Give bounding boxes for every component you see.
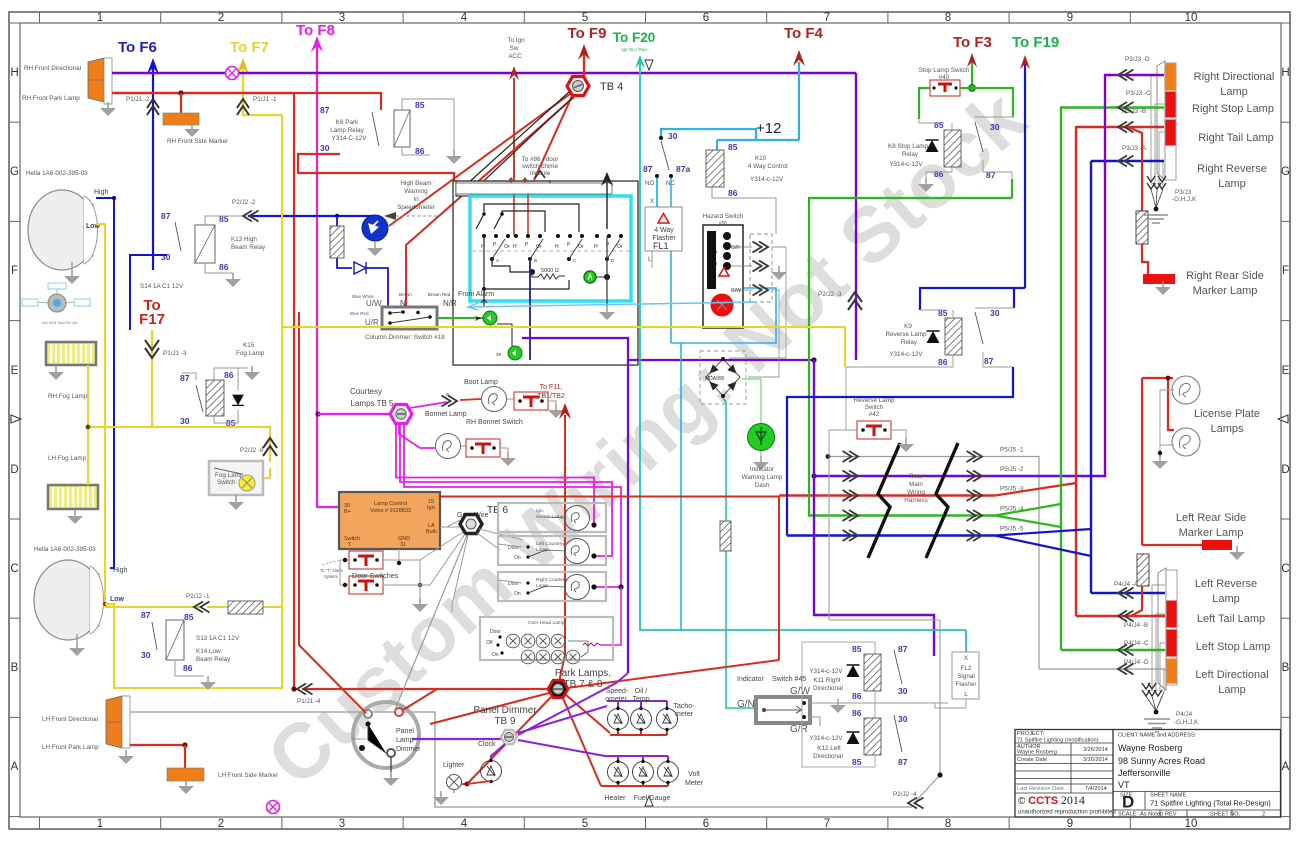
svg-text:85: 85 [852,644,862,654]
svg-text:switch chime: switch chime [522,163,559,170]
svg-text:86: 86 [728,188,738,198]
svg-text:Lamp: Lamp [396,737,414,744]
svg-text:85: 85 [938,308,948,318]
svg-text:87: 87 [984,356,994,366]
svg-text:Speedometer: Speedometer [397,204,435,211]
svg-text:To F6: To F6 [118,39,157,56]
svg-text:85: 85 [934,120,944,130]
svg-text:LH Front Directional: LH Front Directional [42,716,98,723]
svg-text:Lamps TB 5: Lamps TB 5 [351,399,395,408]
svg-text:3/26/2014: 3/26/2014 [1083,747,1108,753]
svg-text:3X: 3X [496,352,502,357]
svg-text:To F8: To F8 [296,22,335,39]
svg-text:Lighter: Lighter [443,762,465,769]
svg-text:K13 High: K13 High [231,236,257,243]
svg-text:8: 8 [945,818,951,830]
svg-text:To "T" Alarm: To "T" Alarm [320,568,343,573]
svg-text:Ign.: Ign. [427,505,437,511]
svg-text:Stop Lamp Switch: Stop Lamp Switch [919,67,970,74]
svg-text:P4/J4: P4/J4 [1176,711,1193,718]
svg-text:87: 87 [180,373,190,383]
svg-text:4: 4 [461,818,468,830]
svg-text:Switch: Switch [217,479,236,486]
svg-text:REV: REV [1165,812,1177,818]
svg-text:As Noted: As Noted [1140,812,1163,818]
svg-text:In: In [413,196,419,203]
svg-text:To F9: To F9 [568,25,607,42]
svg-text:B: B [11,662,19,674]
svg-text:Warning: Warning [404,188,428,195]
svg-text:Left Reverse: Left Reverse [1195,578,1257,590]
svg-text:Lamp Relay: Lamp Relay [330,127,364,134]
svg-text:Y314-c-12V: Y314-c-12V [889,161,923,168]
svg-text:K8 Stop Lamp: K8 Stop Lamp [888,143,928,150]
svg-text:Lamp Control: Lamp Control [374,501,407,507]
svg-text:High Beam: High Beam [400,180,431,187]
svg-text:10: 10 [1185,818,1198,830]
svg-text:Wayne Rosberg: Wayne Rosberg [1017,750,1057,756]
svg-text:87: 87 [141,610,151,620]
svg-text:5000 Ω: 5000 Ω [541,268,559,274]
svg-text:A: A [11,761,19,773]
svg-text:A: A [496,258,499,263]
svg-text:86: 86 [938,357,948,367]
svg-text:Column Dimmer: Switch #18: Column Dimmer: Switch #18 [365,334,445,341]
svg-text:Park Lamps.: Park Lamps. [555,668,611,679]
svg-text:D: D [1281,464,1289,476]
svg-text:Indicator: Indicator [737,676,765,683]
svg-text:Over Head Lamp: Over Head Lamp [528,620,565,626]
svg-text:Relay: Relay [901,339,918,346]
svg-text:3: 3 [339,12,345,24]
svg-text:B+: B+ [344,509,351,515]
svg-text:G/W: G/W [731,288,741,294]
svg-text:Flasher: Flasher [956,681,977,688]
svg-text:Reverse Lamp: Reverse Lamp [854,397,895,404]
svg-text:Tacho-: Tacho- [673,703,695,710]
svg-text:Marker Lamp: Marker Lamp [1193,285,1258,297]
svg-text:87: 87 [643,164,653,174]
svg-text:Lamp: Lamp [1218,178,1246,190]
svg-text:Beam Relay: Beam Relay [196,656,231,663]
svg-text:F17: F17 [139,311,165,328]
svg-text:87: 87 [898,644,908,654]
svg-text:To F20: To F20 [613,30,656,45]
svg-text:Wayne Rosberg: Wayne Rosberg [1118,743,1182,753]
svg-text:B: B [1282,662,1290,674]
svg-text:Indicator: Indicator [750,466,774,473]
svg-text:E: E [1282,365,1290,377]
svg-text:P2/J2 -3: P2/J2 -3 [818,291,842,298]
svg-text:P1/J1 -4: P1/J1 -4 [297,698,321,705]
svg-text:TB 9: TB 9 [494,716,516,727]
svg-text:Boot Lamp: Boot Lamp [464,379,498,386]
svg-text:7/4/2014: 7/4/2014 [1085,786,1107,792]
svg-text:K11 Right: K11 Right [813,677,840,684]
svg-text:86: 86 [219,262,229,272]
svg-text:Right Stop Lamp: Right Stop Lamp [1192,103,1274,115]
svg-text:C: C [10,563,18,575]
svg-text:Left Courtesy: Left Courtesy [536,541,565,547]
svg-text:Volvo # 9128833: Volvo # 9128833 [370,508,411,514]
svg-text:K15: K15 [243,342,255,349]
svg-text:D: D [1122,793,1134,812]
svg-text:30: 30 [320,143,330,153]
svg-text:High: High [94,189,109,196]
svg-text:K6 Park: K6 Park [336,119,359,126]
svg-text:FL2: FL2 [961,665,972,672]
svg-text:87a: 87a [676,164,690,174]
svg-text:High: High [113,567,128,574]
svg-text:F: F [1282,265,1289,277]
svg-text:Y314-c-12V: Y314-c-12V [889,351,923,358]
svg-text:U/R: U/R [365,318,379,327]
svg-text:N/R: N/R [443,299,457,308]
svg-text:87: 87 [320,105,330,115]
svg-text:Or: Or [504,244,510,250]
svg-text:S13 1A C1 12V: S13 1A C1 12V [196,635,240,642]
svg-text:87: 87 [898,757,908,767]
svg-text:Lamp: Lamp [1218,684,1246,696]
svg-text:+12: +12 [756,120,781,137]
svg-text:A: A [1282,761,1290,773]
svg-text:RH Front Park Lamp: RH Front Park Lamp [22,95,80,102]
svg-text:P3/J3 -C: P3/J3 -C [1126,90,1151,97]
svg-text:Harness: Harness [904,497,927,504]
svg-text:H: H [10,67,18,79]
svg-text:P5/J5 -5: P5/J5 -5 [1000,526,1024,533]
svg-text:5: 5 [582,12,588,24]
svg-text:On: On [514,555,521,561]
svg-text:Reverse Lamp: Reverse Lamp [886,331,927,338]
svg-text:B: B [534,258,537,263]
svg-text:85: 85 [728,142,738,152]
svg-text:86: 86 [852,708,862,718]
svg-text:P4/J4 -C: P4/J4 -C [1124,640,1149,647]
svg-text:30: 30 [990,122,1000,132]
svg-text:71 Spitfire Lighting (Total Re: 71 Spitfire Lighting (Total Re-Design) [1150,799,1271,808]
svg-text:Fog Lamp: Fog Lamp [236,350,265,357]
svg-text:-G,H,J,K: -G,H,J,K [1172,196,1197,203]
svg-text:module: module [530,170,551,177]
svg-text:CLIENT NAME and ADDRESS:: CLIENT NAME and ADDRESS: [1118,733,1197,739]
svg-text:Left Rear Side: Left Rear Side [1176,512,1246,524]
svg-text:-G,H,J,K: -G,H,J,K [1174,719,1199,726]
svg-text:P1/J1 -3: P1/J1 -3 [163,350,187,357]
svg-text:H: H [594,244,598,250]
svg-text:Panel Dimmer: Panel Dimmer [473,705,537,716]
svg-text:To F19: To F19 [1012,34,1059,51]
svg-text:G/R: G/R [731,245,740,251]
svg-text:7: 7 [824,12,830,24]
svg-text:G: G [1281,166,1290,178]
svg-text:Left Stop Lamp: Left Stop Lamp [1196,641,1271,653]
svg-text:LH Front Park Lamp: LH Front Park Lamp [42,744,99,751]
svg-text:P2/J2 -4: P2/J2 -4 [893,791,917,798]
svg-text:Heater: Heater [604,795,626,802]
svg-text:F: F [11,265,18,277]
svg-text:Fuel Gauge: Fuel Gauge [634,795,671,802]
svg-text:RH Fog Lamp: RH Fog Lamp [48,393,88,400]
svg-text:30: 30 [141,650,151,660]
svg-text:Clock: Clock [478,741,496,748]
svg-text:Warning Lamp: Warning Lamp [742,474,783,481]
svg-text:Speed-: Speed- [606,688,629,695]
svg-text:Ign.: Ign. [536,508,544,514]
svg-text:P3/J3 -B: P3/J3 -B [1122,108,1146,115]
svg-text:85: 85 [852,757,862,767]
svg-text:Main: Main [909,481,923,488]
svg-text:PROJECT:: PROJECT: [1017,731,1044,737]
svg-text:G/W: G/W [790,686,811,697]
svg-text:2: 2 [1262,812,1265,818]
svg-text:2: 2 [218,12,224,24]
svg-text:#42: #42 [869,411,880,418]
svg-text:Volt: Volt [688,771,700,778]
svg-text:30: 30 [161,252,171,262]
svg-text:6: 6 [703,12,709,24]
svg-text:U/W: U/W [366,299,382,308]
svg-text:From Alarm: From Alarm [458,291,494,298]
svg-text:On: On [492,652,499,658]
svg-text:P2/J2 -2: P2/J2 -2 [232,199,256,206]
svg-text:3/26/2014: 3/26/2014 [1083,757,1108,763]
svg-text:Brown Red: Brown Red [428,292,451,297]
svg-text:SCALE: SCALE [1118,812,1137,818]
svg-text:98 Sunny Acres Road: 98 Sunny Acres Road [1118,756,1205,766]
svg-text:Hella 1A6-002-395-03: Hella 1A6-002-395-03 [34,546,96,553]
svg-text:Low: Low [110,596,125,603]
svg-text:L: L [964,691,968,698]
svg-text:86: 86 [934,169,944,179]
svg-text:H: H [513,244,517,250]
svg-text:1: 1 [97,818,103,830]
svg-text:4 Way Control: 4 Way Control [748,163,788,170]
svg-text:K12 Left: K12 Left [817,745,841,752]
svg-text:Off: Off [486,640,493,646]
svg-text:P3/J3 -A: P3/J3 -A [1122,145,1147,152]
svg-text:30: 30 [990,308,1000,318]
svg-text:P2/J2 -8: P2/J2 -8 [240,447,264,454]
svg-text:K9: K9 [904,323,912,330]
svg-text:S14 1A C1 12V: S14 1A C1 12V [140,283,184,290]
svg-text:Dash: Dash [755,482,770,489]
svg-text:87: 87 [161,211,171,221]
svg-text:RH Bonnet Switch: RH Bonnet Switch [466,419,523,426]
svg-text:System: System [324,574,338,579]
svg-text:E: E [11,365,19,377]
svg-text:N: N [400,299,406,308]
svg-text:86: 86 [852,691,862,701]
svg-text:Ign On / Run: Ign On / Run [621,47,647,52]
svg-text:To F3: To F3 [953,34,992,51]
svg-text:MDA990: MDA990 [705,376,725,382]
svg-text:87: 87 [986,170,996,180]
svg-text:G: G [10,166,19,178]
svg-text:Min 9024 Tach Pin Out: Min 9024 Tach Pin Out [42,321,77,325]
svg-text:5: 5 [582,818,588,830]
svg-text:Door: Door [490,629,501,635]
svg-text:K10: K10 [755,155,767,162]
svg-text:#50: #50 [719,221,728,227]
svg-text:Jeffersonville: Jeffersonville [1118,768,1170,778]
svg-text:H: H [555,244,559,250]
svg-text:Right Reverse: Right Reverse [1197,163,1267,175]
svg-text:RH Front Side Marker: RH Front Side Marker [167,138,228,145]
svg-text:H: H [1281,67,1289,79]
svg-text:7: 7 [824,818,830,830]
svg-text:VT: VT [1118,780,1130,790]
svg-text:Bulb: Bulb [426,529,437,535]
svg-text:31: 31 [400,542,406,548]
svg-text:FL1: FL1 [653,241,669,251]
svg-text:To #86 / door: To #86 / door [522,156,559,163]
svg-text:2: 2 [218,818,224,830]
svg-text:P1/J1 -2: P1/J1 -2 [126,96,150,103]
svg-text:Right Tail Lamp: Right Tail Lamp [1198,132,1274,144]
svg-text:Dimmer: Dimmer [396,746,421,753]
svg-text:Door Switches: Door Switches [352,571,399,580]
svg-text:Blue Red: Blue Red [350,311,369,316]
svg-text:Switch: Switch [865,404,884,411]
svg-text:To Ign: To Ign [507,37,525,44]
svg-text:Courtesy: Courtesy [350,387,382,396]
svg-text:4: 4 [461,12,468,24]
svg-text:LH Front Side Marker: LH Front Side Marker [218,772,278,779]
svg-text:10: 10 [1185,12,1198,24]
svg-text:C: C [1281,563,1289,575]
svg-text:Hella 1A6-002-395-03: Hella 1A6-002-395-03 [26,170,88,177]
svg-text:Wiring: Wiring [907,489,925,496]
svg-text:30: 30 [898,686,908,696]
svg-text:P5/J5 -1: P5/J5 -1 [1000,447,1024,454]
svg-text:NO: NO [645,180,655,187]
svg-text:K14 Low: K14 Low [196,648,221,655]
svg-text:P1/J1 -1: P1/J1 -1 [253,96,277,103]
svg-text:SHEET NO.: SHEET NO. [1210,812,1240,818]
svg-text:To F4: To F4 [784,25,824,42]
svg-text:9: 9 [1067,12,1073,24]
svg-text:Bonnet Lamp: Bonnet Lamp [425,411,467,418]
svg-text:30: 30 [180,416,190,426]
svg-text:Last Revision Date: Last Revision Date [1017,786,1064,792]
svg-text:85: 85 [415,100,425,110]
svg-text:TB1/TB2: TB1/TB2 [537,393,565,400]
svg-text:Directional: Directional [813,685,843,692]
svg-text:Lamp: Lamp [1220,86,1248,98]
svg-text:Temp: Temp [632,696,649,703]
svg-text:Right Courtesy: Right Courtesy [536,577,568,583]
svg-text:Oil /: Oil / [635,688,648,695]
svg-text:LH Fog Lamp: LH Fog Lamp [48,455,87,462]
svg-text:To F7: To F7 [230,39,269,56]
svg-text:Sw: Sw [510,45,519,52]
svg-text:8: 8 [945,12,951,24]
svg-text:6: 6 [703,818,709,830]
svg-text:D: D [10,464,18,476]
svg-text:Left Directional: Left Directional [1195,669,1268,681]
svg-text:TB 4: TB 4 [600,81,623,93]
svg-text:ometer: ometer [605,696,627,703]
svg-text:Lamps: Lamps [1210,423,1244,435]
svg-text:Directional: Directional [813,753,843,760]
svg-text:Signal: Signal [957,673,975,680]
svg-text:30: 30 [898,714,908,724]
svg-text:To F11,: To F11, [540,384,563,391]
svg-text:Left Tail Lamp: Left Tail Lamp [1197,613,1265,625]
svg-text:30: 30 [668,131,678,141]
svg-text:9: 9 [1067,818,1073,830]
svg-text:G/R: G/R [790,724,808,735]
svg-text:85: 85 [184,612,194,622]
svg-text:Meter: Meter [685,780,704,787]
svg-text:P2/J2 -1: P2/J2 -1 [186,593,210,600]
svg-text:Right Directional: Right Directional [1194,71,1275,83]
svg-text:Marker Lamp: Marker Lamp [1179,527,1244,539]
svg-text:Custom: Custom [352,736,366,741]
svg-text:RH Front Directional: RH Front Directional [24,65,81,72]
svg-text:G/N: G/N [737,699,755,710]
svg-text:86: 86 [183,663,193,673]
svg-text:P5/J5 -2: P5/J5 -2 [1000,466,1024,473]
svg-text:Hazard Switch: Hazard Switch [703,213,744,220]
svg-text:Y314-C-12V: Y314-C-12V [332,135,367,142]
svg-text:86: 86 [224,370,234,380]
svg-text:Y314-c-12V: Y314-c-12V [750,176,784,183]
svg-text:© CCTS 2014: © CCTS 2014 [1018,793,1085,807]
svg-text:Rear: Rear [909,473,923,480]
svg-text:L: L [648,256,652,263]
svg-text:Y314-c-12V: Y314-c-12V [809,668,843,675]
svg-text:4 Way: 4 Way [654,227,674,234]
svg-text:Y314-c-12V: Y314-c-12V [809,735,843,742]
svg-text:Brown: Brown [399,292,412,297]
svg-text:3: 3 [339,818,345,830]
svg-text:Right Rear Side: Right Rear Side [1186,270,1264,282]
svg-text:unauthorized reproduction proh: unauthorized reproduction prohibited [1018,810,1116,816]
svg-text:Switch: Switch [344,536,360,542]
svg-text:Create Date: Create Date [1017,757,1047,763]
svg-text:Relay: Relay [902,151,919,158]
svg-text:License Plate: License Plate [1194,408,1260,420]
svg-text:71 Spitfire Lighting (modifica: 71 Spitfire Lighting (modification) [1017,738,1099,744]
svg-text:Or: Or [578,244,584,250]
svg-text:1: 1 [97,12,103,24]
svg-text:Panel: Panel [396,728,414,735]
svg-text:Switch #45: Switch #45 [772,676,806,683]
svg-text:P4/J4 -A: P4/J4 -A [1114,581,1139,588]
svg-text:P4/J4 -B: P4/J4 -B [1124,622,1148,629]
svg-text:P3/J3 -D: P3/J3 -D [1125,56,1150,63]
svg-text:On: On [514,591,521,597]
svg-text:B: B [446,392,449,397]
svg-text:P3/J3: P3/J3 [1175,189,1192,196]
svg-text:meter: meter [675,711,694,718]
svg-text:ACC: ACC [508,53,522,60]
svg-text:P4/J4 -D: P4/J4 -D [1124,659,1149,666]
svg-text:Lamp: Lamp [1212,593,1240,605]
svg-text:Beam Relay: Beam Relay [231,244,266,251]
svg-text:Or: Or [617,244,623,250]
